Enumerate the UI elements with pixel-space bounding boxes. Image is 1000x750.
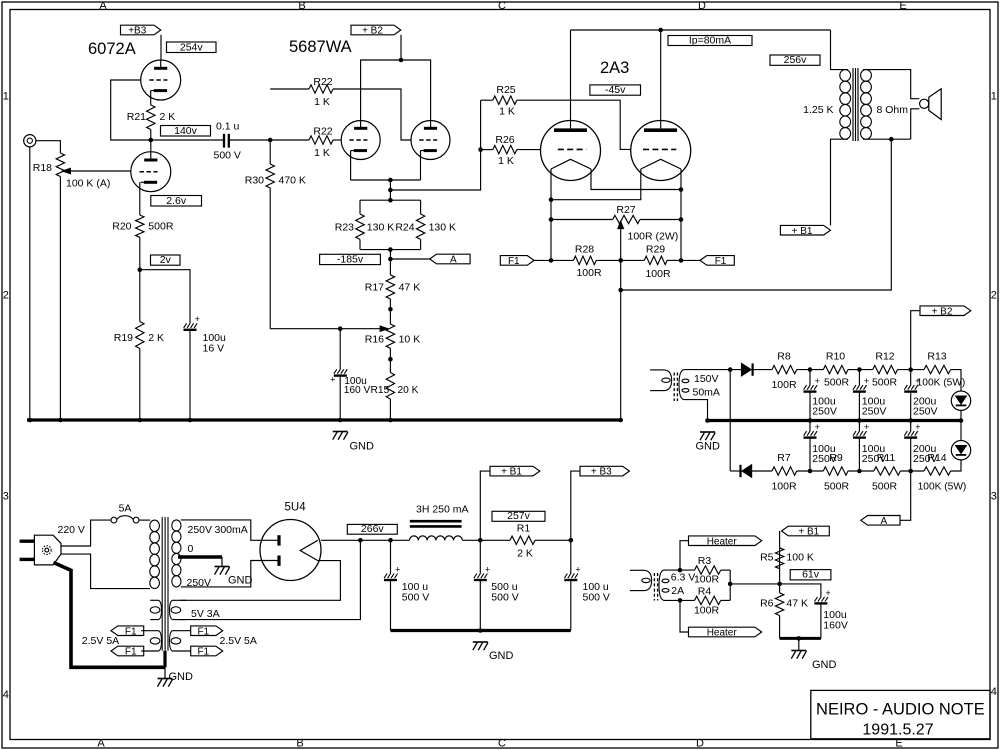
transformer T2 2.5V winding right: [173, 630, 191, 632]
flag +B1 heater bias: [782, 526, 830, 536]
svg-text:+: +: [485, 564, 490, 574]
node R3 R4 output: [728, 582, 733, 587]
svg-text:160 V: 160 V: [344, 385, 371, 396]
transformer T1 OPT secondary 8 Ohm: [861, 70, 872, 82]
flag A left: [430, 254, 470, 264]
wire 5V winding bottom to output: [181, 540, 361, 619]
capacitor C12 200u 250V lower: [910, 421, 912, 432]
svg-text:100 K: 100 K: [786, 552, 813, 564]
flag +B2 driver: [351, 25, 401, 35]
node bus C3: [338, 418, 343, 423]
potentiometer VR15 20K: [386, 373, 394, 400]
node filament leg joins: [679, 187, 684, 192]
svg-text:1: 1: [3, 91, 9, 103]
resistor R29 100R: [621, 259, 645, 261]
capacitor C13 100u 160V: [815, 597, 818, 602]
svg-text:+: +: [195, 314, 200, 324]
resistor R22 lower grid stopper: [270, 139, 309, 141]
capacitor C7 100u 250V: [809, 370, 811, 386]
wire R18 to ground bus: [59, 177, 61, 421]
svg-text:2: 2: [991, 290, 997, 302]
annotation box Ip=80mA: [668, 36, 752, 46]
bias supply ground bus: [708, 419, 962, 422]
node R26 tap: [478, 147, 483, 152]
flag +B1 OPT: [780, 225, 830, 235]
node cathode junction: [388, 178, 393, 183]
node R10 R12: [857, 367, 862, 372]
resistor R10 500R: [823, 365, 848, 373]
svg-text:0: 0: [188, 543, 194, 555]
flag F1 right: [700, 256, 734, 266]
svg-text:GND: GND: [489, 650, 514, 662]
svg-text:R30: R30: [245, 175, 264, 187]
capacitor C1 0.1u 500V: [223, 134, 225, 148]
flag Heater bottom: [689, 627, 762, 637]
wire 5V winding top to filament: [181, 561, 341, 601]
svg-text:R1: R1: [517, 523, 531, 535]
svg-text:R21: R21: [127, 111, 146, 123]
wire LED1 to bus: [960, 410, 962, 420]
node bus R18: [58, 418, 63, 423]
node grid input junction: [268, 138, 273, 143]
svg-text:470 K: 470 K: [279, 175, 306, 187]
svg-text:100K (5W): 100K (5W): [918, 482, 967, 493]
svg-text:NEIRO - AUDIO NOTE: NEIRO - AUDIO NOTE: [816, 701, 985, 719]
svg-text:500 V: 500 V: [214, 150, 241, 162]
wire -185v node to flag A: [390, 258, 429, 260]
wire R18 wiper to V1b grid: [66, 170, 131, 172]
ground symbol GND signal: [333, 431, 348, 433]
wire +B3 to V1a plate: [160, 35, 162, 60]
svg-text:R24: R24: [395, 222, 414, 234]
svg-text:R5: R5: [760, 552, 774, 564]
wire tap to C3: [339, 329, 341, 370]
wire plate V3a: [570, 30, 572, 128]
svg-text:500R: 500R: [824, 481, 850, 493]
wire jack to R18: [36, 141, 60, 153]
ground symbol GND bias: [700, 431, 715, 433]
wire C2 to ground bus: [189, 330, 191, 420]
resistor R19 2K: [136, 322, 144, 349]
capacitor C5 500u 500V: [479, 540, 481, 573]
svg-text:C: C: [498, 738, 506, 750]
wire feedback from OPT secondary: [621, 139, 892, 290]
flag +B3: [121, 25, 161, 35]
node cathode bypass junction: [138, 267, 143, 272]
svg-text:+ B1: + B1: [798, 527, 819, 538]
wire V1a grid loop: [111, 80, 151, 140]
flag +B2 PSU: [920, 306, 971, 316]
wire R21 to node 140v: [150, 130, 152, 141]
svg-text:R18: R18: [33, 162, 52, 174]
svg-text:220 V: 220 V: [58, 524, 85, 536]
svg-text:R13: R13: [927, 351, 946, 363]
node bracket bottom: [388, 247, 393, 252]
svg-text:250V: 250V: [187, 577, 212, 589]
wire fuse to primary: [139, 519, 150, 521]
svg-text:47 K: 47 K: [399, 282, 421, 294]
wire T4 secondary top: [664, 569, 695, 571]
svg-text:256v: 256v: [784, 54, 808, 66]
svg-text:R10: R10: [826, 351, 845, 363]
tube V1a 6072A upper triode: [141, 60, 181, 100]
plug prong top: [20, 540, 35, 543]
wire node to R30: [269, 140, 271, 164]
choke L1 3H core bars: [410, 520, 462, 523]
svg-text:+: +: [864, 376, 869, 386]
svg-text:Heater: Heater: [707, 536, 738, 547]
voltage box 266v: [347, 524, 397, 534]
svg-text:R9: R9: [829, 452, 843, 464]
wire filament V3b right leg: [680, 169, 682, 260]
svg-text:+ B3: + B3: [591, 467, 612, 478]
svg-text:R22: R22: [313, 126, 332, 138]
wire R19 chain: [139, 270, 141, 322]
potentiometer R16 10K: [389, 309, 391, 324]
svg-text:1 K: 1 K: [314, 147, 330, 159]
svg-text:R3: R3: [698, 555, 712, 567]
svg-text:+: +: [815, 422, 820, 432]
wire +B2 riser: [911, 311, 920, 370]
svg-text:500 V: 500 V: [402, 592, 429, 604]
node heater bottom junction: [678, 598, 683, 603]
flag Heater top: [689, 536, 762, 546]
svg-text:6.3 V: 6.3 V: [671, 572, 696, 584]
capacitor C2 100u 16V: [184, 323, 187, 328]
rectifier tube 5U4: [260, 520, 321, 581]
wire R29 to filament: [667, 259, 681, 261]
node secondary feedback tap: [889, 137, 894, 142]
flag F1 heater right bottom: [191, 646, 223, 656]
svg-text:+ B1: + B1: [792, 226, 813, 237]
svg-text:100R (2W): 100R (2W): [628, 231, 679, 243]
svg-text:C: C: [498, 0, 506, 12]
svg-text:160V: 160V: [823, 620, 848, 632]
svg-text:R20: R20: [112, 221, 131, 233]
svg-text:+B3: +B3: [128, 26, 147, 37]
wire R13 to LED1: [951, 370, 961, 391]
wire R3 R4 join: [721, 569, 731, 571]
transformer T2 5V winding left half: [150, 599, 158, 601]
svg-text:R27: R27: [616, 204, 635, 216]
wire T3 secondary bottom to bus: [684, 400, 708, 421]
svg-text:R17: R17: [365, 282, 384, 294]
voltage box -185v: [320, 254, 381, 264]
svg-text:Ip=80mA: Ip=80mA: [689, 34, 731, 46]
wire driver output to grid resistors: [390, 100, 480, 190]
wire 0 tap to ground: [178, 555, 222, 558]
resistor R21: [147, 105, 155, 130]
node filament center tap: [618, 258, 623, 263]
capacitor C3 100u 160V: [334, 369, 337, 373]
svg-text:1991.5.27: 1991.5.27: [862, 722, 933, 739]
flag F1 heater left bottom: [111, 646, 144, 656]
svg-text:2.6v: 2.6v: [166, 195, 187, 207]
node bus C2: [188, 418, 193, 423]
voltage box -45v: [590, 85, 641, 95]
transformer T2 HV secondary 250V-0-250V: [172, 520, 181, 531]
resistor R14 100K 5W: [924, 467, 951, 475]
svg-text:E: E: [899, 0, 906, 12]
wire heater DC to R5 R6: [730, 583, 779, 585]
flag F1 left: [500, 256, 534, 266]
node bus filament return: [618, 418, 623, 423]
R27 wiper arrow: [618, 221, 624, 228]
svg-text:GND: GND: [228, 575, 253, 587]
svg-text:500R: 500R: [148, 221, 174, 233]
svg-text:GND: GND: [169, 671, 194, 683]
svg-text:100 K (A): 100 K (A): [66, 178, 110, 190]
svg-text:5687WA: 5687WA: [289, 38, 352, 56]
signal ground bus: [27, 418, 621, 421]
node V1 junction 140v: [149, 138, 154, 143]
node bus VR15: [388, 418, 393, 423]
svg-text:R12: R12: [875, 351, 894, 363]
transformer T2 primary 220V: [150, 520, 160, 531]
wire R16 wiper line: [270, 328, 384, 330]
node bus R19: [138, 418, 143, 423]
resistor R3 100R: [695, 566, 721, 574]
svg-text:2 K: 2 K: [160, 111, 176, 123]
resistor R11 500R: [874, 467, 901, 475]
svg-text:500R: 500R: [872, 377, 898, 389]
svg-text:250V: 250V: [812, 406, 837, 418]
svg-text:1 K: 1 K: [499, 106, 515, 118]
svg-text:R6: R6: [760, 598, 774, 610]
svg-text:Heater: Heater: [707, 628, 738, 639]
svg-text:130 K: 130 K: [429, 222, 456, 234]
svg-text:F1: F1: [197, 647, 209, 658]
voltage box 257v: [492, 511, 545, 521]
node -185v: [388, 257, 393, 262]
tube V2b 5687 right: [411, 121, 450, 160]
wire plate feed V2a: [361, 60, 431, 128]
svg-text:150V: 150V: [694, 373, 719, 385]
transformer T2 core: [161, 517, 163, 651]
node R8 R10: [808, 367, 813, 372]
wire D2 to R7: [752, 470, 772, 472]
svg-text:+: +: [826, 588, 831, 598]
tube V1b 6072A lower triode: [131, 152, 171, 192]
svg-text:R26: R26: [495, 134, 514, 146]
wire plug to primary bottom: [61, 554, 150, 589]
wire branch to lower diode: [729, 370, 731, 471]
wire B+ top rail to OPT: [571, 29, 831, 31]
capacitor C8 100u 250V: [858, 370, 860, 386]
wire cathode junction down: [389, 180, 391, 200]
wire T4 secondary bottom: [664, 599, 695, 601]
svg-text:140v: 140v: [174, 125, 198, 137]
PSU ground bus: [391, 629, 571, 632]
wire filament V3a left leg: [550, 169, 552, 260]
potentiometer R18 100K: [56, 153, 64, 177]
node V3b plate tap: [658, 28, 663, 33]
svg-text:8 Ohm: 8 Ohm: [877, 104, 909, 116]
wire node to coupling cap: [151, 139, 223, 141]
svg-text:266v: 266v: [361, 523, 385, 535]
node heater top junction: [678, 568, 683, 573]
wire center tap to ground bus: [620, 260, 622, 420]
svg-text:-45v: -45v: [605, 84, 626, 96]
svg-text:R8: R8: [777, 351, 791, 363]
flag A bias: [861, 516, 900, 526]
svg-text:+: +: [575, 564, 580, 574]
svg-text:1 K: 1 K: [314, 96, 330, 108]
svg-text:300mA: 300mA: [215, 524, 248, 536]
svg-text:100K (5W): 100K (5W): [917, 378, 966, 389]
node driver output tap: [388, 188, 393, 193]
svg-text:GND: GND: [350, 441, 375, 453]
svg-text:500 V: 500 V: [491, 592, 518, 604]
node R17 R16 junction: [388, 307, 393, 312]
wire choke to B1 node: [462, 539, 510, 541]
resistor R26 1K grid V3a: [481, 149, 493, 151]
svg-text:4: 4: [991, 686, 997, 698]
svg-text:R19: R19: [114, 332, 133, 344]
svg-text:F1: F1: [125, 647, 137, 658]
resistor R12 500R: [873, 365, 898, 373]
svg-text:+ B2: + B2: [362, 26, 383, 37]
svg-text:100R: 100R: [771, 481, 797, 493]
diode D2 lower: [730, 470, 740, 472]
ground symbol GND PSU: [473, 641, 488, 643]
ground symbol GND HV center tap: [215, 566, 230, 568]
wire +B2 to plates: [400, 35, 402, 60]
svg-text:1 K: 1 K: [498, 155, 514, 167]
node bracket top: [388, 198, 393, 203]
svg-text:+: +: [915, 376, 920, 386]
flag F1 heater right top: [191, 626, 223, 636]
wire cap to 5687 grids node: [229, 139, 270, 141]
svg-text:500R: 500R: [824, 377, 850, 389]
svg-text:5A: 5A: [119, 503, 132, 515]
wire V1b cathode to R20: [139, 182, 141, 215]
transformer T3 core: [673, 373, 675, 402]
node 61v junction: [777, 582, 782, 587]
svg-text:1.25 K: 1.25 K: [803, 104, 833, 116]
svg-text:250V: 250V: [913, 406, 938, 418]
earth wire from plug: [54, 563, 166, 668]
svg-text:R22: R22: [313, 76, 332, 88]
transformer T4 heater primary: [630, 569, 645, 571]
resistor R6 47K: [779, 584, 781, 593]
svg-text:3: 3: [3, 491, 9, 503]
speaker SP1: [920, 99, 929, 108]
wire filament V3a right leg: [591, 169, 681, 190]
node R9 R11: [857, 469, 862, 474]
wire +B1 riser: [480, 471, 490, 540]
svg-text:B: B: [296, 738, 303, 750]
svg-text:R23: R23: [335, 222, 354, 234]
wire cathodes join: [350, 151, 352, 180]
wire +B3 riser: [571, 471, 580, 540]
node R11 R14 bias out: [908, 469, 913, 474]
wire to ground: [798, 638, 800, 650]
wire R19 to ground bus: [139, 349, 141, 421]
tube V2a 5687 left: [341, 121, 380, 160]
transformer T2 2.5V winding left: [141, 630, 158, 632]
node PSU bus ground: [478, 628, 483, 633]
svg-text:2 K: 2 K: [517, 548, 533, 560]
wire V1a cathode to R21: [150, 91, 152, 105]
wire jack sleeve to ground bus: [29, 147, 31, 420]
node +B2 plate junction: [399, 58, 404, 63]
svg-text:GND: GND: [812, 659, 837, 671]
wire R14 to LED2: [951, 460, 961, 471]
transformer T3 secondary 150V 50mA: [679, 370, 684, 400]
wire D1 to R8: [753, 369, 772, 371]
capacitor C4 100u 500V: [390, 540, 392, 573]
transformer T2 5V winding: [173, 599, 186, 601]
resistor R23 130K: [359, 200, 361, 214]
svg-text:2.5V 5A: 2.5V 5A: [220, 635, 257, 647]
wire R25 to V3b grid: [517, 100, 631, 149]
voltage box 61v: [790, 570, 831, 580]
wire R22 lower to V2a grid: [333, 139, 341, 141]
svg-text:6072A: 6072A: [88, 40, 136, 58]
svg-text:0.1 u: 0.1 u: [216, 121, 240, 133]
svg-text:254v: 254v: [180, 41, 204, 53]
resistor R5 100K: [779, 548, 781, 584]
svg-text:+: +: [864, 422, 869, 432]
resistor R22 upper grid stopper: [270, 88, 309, 90]
svg-text:GND: GND: [696, 441, 721, 453]
resistor R7 100R: [772, 467, 797, 475]
capacitor C6 100u 500V: [570, 540, 572, 573]
wire R30 to R16 wiper line: [269, 188, 271, 329]
wire VR15 to ground bus: [389, 399, 391, 420]
svg-text:+: +: [395, 564, 400, 574]
node +B3 takeoff: [569, 538, 574, 543]
wire heater top: [680, 541, 689, 570]
svg-text:R25: R25: [496, 84, 515, 96]
svg-text:+ B2: + B2: [932, 306, 953, 317]
svg-text:F1: F1: [715, 256, 727, 267]
svg-text:+ B1: + B1: [501, 467, 522, 478]
node R7 R9: [808, 469, 813, 474]
svg-text:16 V: 16 V: [203, 343, 225, 355]
node cap1 tap: [358, 538, 363, 543]
resistor R4 100R: [695, 596, 721, 604]
svg-text:R29: R29: [646, 244, 665, 256]
svg-text:F1: F1: [125, 626, 137, 637]
svg-text:R7: R7: [777, 452, 791, 464]
svg-text:+: +: [815, 376, 820, 386]
capacitor C10 100u 250V lower: [809, 421, 811, 432]
node R16 VR15 junction: [388, 357, 393, 362]
resistor R13 100K 5W: [924, 365, 951, 373]
svg-text:500 V: 500 V: [583, 592, 610, 604]
wire OPT primary top: [831, 30, 849, 70]
svg-text:3H 250 mA: 3H 250 mA: [416, 504, 469, 516]
node wiper cap tap: [338, 326, 343, 331]
voltage box 140v: [161, 126, 211, 137]
transformer T3 bias primary: [650, 369, 664, 371]
svg-text:2v: 2v: [160, 254, 172, 266]
resistor R30 470K: [266, 164, 274, 188]
svg-text:R4: R4: [698, 586, 712, 598]
svg-text:3: 3: [991, 491, 997, 503]
svg-text:500R: 500R: [872, 481, 898, 493]
wire HV secondary top to 5U4 plate1: [181, 520, 278, 540]
svg-text:A: A: [450, 255, 457, 266]
node choke output +B1: [478, 538, 483, 543]
wire HV secondary bottom to 5U4 plate2: [181, 561, 278, 587]
svg-text:50mA: 50mA: [693, 387, 720, 399]
capacitor C11 100u 250V lower: [858, 421, 860, 432]
svg-text:R14: R14: [927, 452, 946, 464]
svg-text:47 K: 47 K: [786, 598, 808, 610]
